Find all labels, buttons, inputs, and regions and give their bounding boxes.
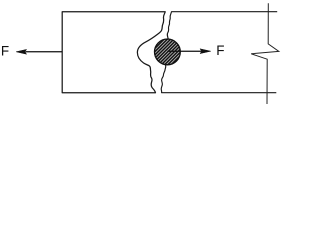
rivet (hatched circle) [155,39,181,65]
break line (right) [251,3,279,104]
left force arrow [26,51,63,53]
svg-text:F: F [216,43,224,58]
svg-text:F: F [1,44,9,59]
plate left piece (outline with torn right edge around hole) [62,12,165,93]
plate right piece: top edge with torn left edge down to rivet [167,12,277,39]
right force arrow [167,50,201,52]
plate right piece: torn edge below rivet and bottom edge [161,65,276,93]
